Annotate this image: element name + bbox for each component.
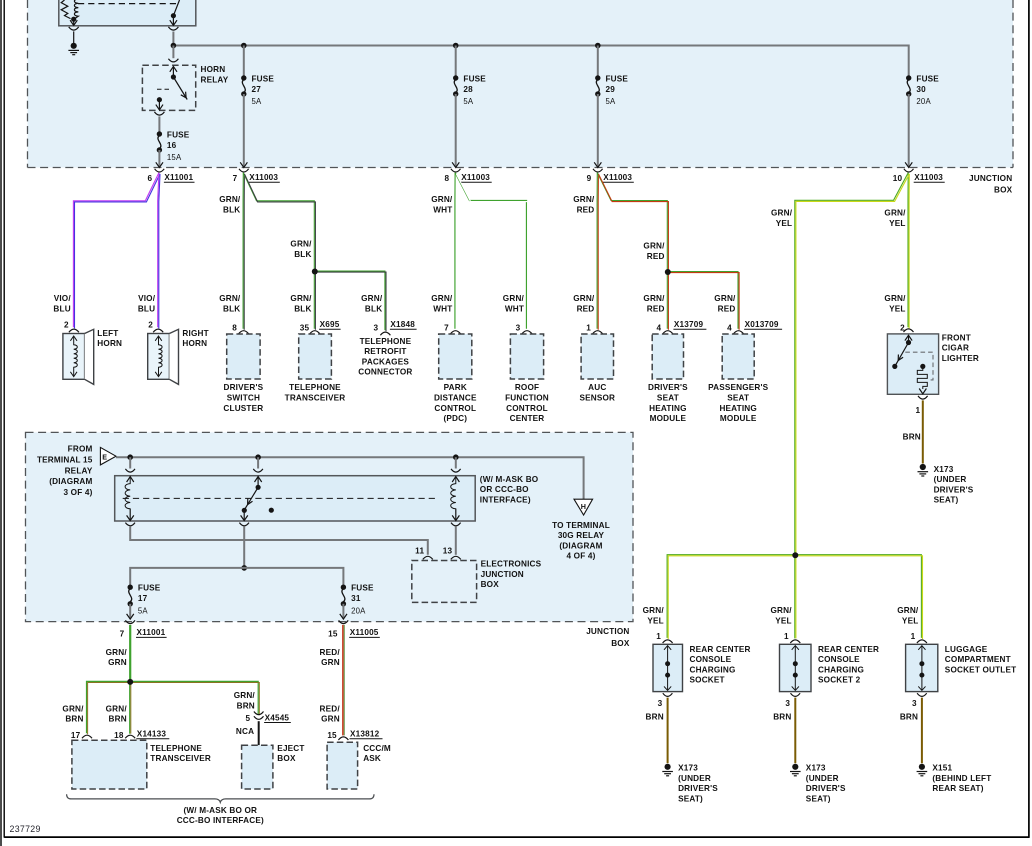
svg-text:BRN: BRN	[237, 701, 255, 710]
roof function control center	[505, 324, 549, 424]
horn relay	[142, 46, 228, 116]
svg-text:H: H	[581, 502, 586, 511]
note: to terminal 30G relay	[552, 521, 610, 561]
svg-text:2: 2	[64, 321, 69, 330]
svg-text:(W/ M-ASK BO OR: (W/ M-ASK BO OR	[183, 806, 257, 815]
note: W/ M-ASK BO or CCC-BO interface	[480, 475, 539, 505]
svg-text:RELAY: RELAY	[201, 75, 229, 84]
rear center console charging socket	[653, 632, 751, 708]
svg-text:X11003: X11003	[603, 173, 632, 182]
electronics junction box	[412, 546, 542, 602]
svg-text:GRN/: GRN/	[643, 242, 665, 251]
svg-text:BRN: BRN	[109, 715, 127, 724]
svg-text:TELEPHONE: TELEPHONE	[150, 744, 202, 753]
svg-text:BRN: BRN	[900, 713, 918, 722]
svg-text:LIGHTER: LIGHTER	[942, 354, 979, 363]
svg-text:X11003: X11003	[461, 173, 490, 182]
svg-text:3: 3	[516, 324, 521, 333]
svg-text:GRN/: GRN/	[62, 704, 84, 713]
wire: bus from relay to fuses 27-30	[171, 32, 909, 79]
wire relay left pin to electronics junction box pin 11	[130, 527, 428, 555]
svg-text:CONSOLE: CONSOLE	[818, 655, 860, 664]
fuse 17	[128, 584, 161, 618]
svg-text:(DIAGRAM: (DIAGRAM	[49, 477, 92, 486]
front cigar lighter	[887, 323, 979, 415]
svg-text:RED/: RED/	[320, 648, 341, 657]
svg-text:BOX: BOX	[277, 754, 296, 763]
svg-text:YEL: YEL	[889, 219, 905, 228]
svg-text:JUNCTION: JUNCTION	[586, 627, 629, 636]
svg-text:5A: 5A	[606, 97, 617, 106]
wire GRN/BRN branches to telephone transceiver and eject box	[62, 679, 259, 734]
telephone transceiver (lower)	[72, 740, 211, 789]
svg-text:VIO/: VIO/	[138, 294, 156, 303]
svg-text:GRN/: GRN/	[884, 294, 906, 303]
svg-text:GRN: GRN	[321, 715, 340, 724]
svg-text:CCC-BO INTERFACE): CCC-BO INTERFACE)	[177, 816, 264, 825]
svg-text:GRN/: GRN/	[219, 294, 241, 303]
svg-text:RELAY: RELAY	[65, 466, 93, 475]
svg-text:GRN/: GRN/	[771, 209, 793, 218]
svg-text:RIGHT: RIGHT	[182, 329, 208, 338]
svg-text:YEL: YEL	[775, 616, 791, 625]
svg-text:YEL: YEL	[889, 304, 905, 313]
svg-text:FUSE: FUSE	[916, 75, 939, 84]
svg-text:REAR CENTER: REAR CENTER	[690, 645, 751, 654]
svg-text:BOX: BOX	[994, 185, 1013, 194]
svg-text:X11001: X11001	[137, 628, 166, 637]
svg-text:FUSE: FUSE	[252, 75, 275, 84]
svg-text:X173: X173	[934, 465, 954, 474]
connector X14133 pins 17 and 18	[71, 730, 169, 740]
svg-text:1: 1	[586, 324, 591, 333]
svg-text:RED: RED	[577, 304, 595, 313]
svg-text:YEL: YEL	[647, 616, 663, 625]
svg-text:RED: RED	[647, 252, 665, 261]
relay (in junction box 2)	[115, 457, 476, 526]
park distance control (PDC)	[434, 324, 477, 424]
left horn	[63, 321, 122, 385]
svg-text:MODULE: MODULE	[650, 414, 687, 423]
connector X4545 pin 5	[236, 712, 291, 736]
fuse 30	[906, 75, 939, 167]
svg-text:SWITCH: SWITCH	[227, 394, 260, 403]
svg-text:FUSE: FUSE	[463, 75, 486, 84]
svg-text:CHARGING: CHARGING	[690, 665, 736, 674]
svg-text:(W/ M-ASK BO: (W/ M-ASK BO	[480, 475, 539, 484]
svg-text:X173: X173	[806, 764, 826, 773]
svg-text:GRN/: GRN/	[897, 606, 919, 615]
svg-text:X151: X151	[932, 764, 952, 773]
svg-text:GRN/: GRN/	[290, 240, 312, 249]
wire BRN from socket 1	[646, 698, 668, 764]
svg-text:DRIVER'S: DRIVER'S	[224, 383, 264, 392]
svg-text:BRN: BRN	[903, 433, 921, 442]
svg-text:GRN/: GRN/	[714, 294, 736, 303]
svg-text:X013709: X013709	[745, 320, 779, 329]
svg-text:GRN/: GRN/	[643, 294, 665, 303]
wire relay switch pin to fuses 17 and 31	[130, 527, 343, 588]
svg-text:5A: 5A	[252, 97, 263, 106]
svg-text:3: 3	[912, 699, 917, 708]
wire RED/GRN from X11005 pin 15	[320, 625, 345, 736]
svg-text:7: 7	[120, 629, 125, 638]
svg-text:(UNDER: (UNDER	[678, 774, 711, 783]
junction box (top)	[28, 0, 1014, 194]
svg-text:TRANSCEIVER: TRANSCEIVER	[285, 394, 346, 403]
svg-text:CONSOLE: CONSOLE	[690, 655, 732, 664]
telephone transceiver (upper)	[285, 320, 346, 403]
ground X173 socket 2	[790, 764, 846, 804]
svg-text:GRN/: GRN/	[573, 294, 595, 303]
svg-text:FUNCTION: FUNCTION	[505, 394, 549, 403]
svg-text:237729: 237729	[10, 824, 41, 834]
svg-text:GRN/: GRN/	[361, 294, 383, 303]
svg-text:REAR SEAT): REAR SEAT)	[932, 784, 983, 793]
svg-text:29: 29	[606, 85, 616, 94]
wire GRN/YEL to front cigar lighter	[884, 173, 909, 329]
svg-text:X14133: X14133	[137, 730, 167, 739]
svg-text:BLK: BLK	[294, 304, 311, 313]
svg-text:RETROFIT: RETROFIT	[364, 347, 406, 356]
svg-text:18: 18	[114, 731, 124, 740]
svg-text:9: 9	[587, 174, 592, 183]
wire BRN from socket 3	[900, 698, 922, 764]
svg-text:SEAT): SEAT)	[934, 496, 959, 505]
svg-text:1: 1	[911, 632, 916, 641]
svg-text:WHT: WHT	[433, 205, 452, 214]
wire GRN/YEL distribution to three sockets	[643, 552, 923, 639]
svg-text:17: 17	[71, 731, 81, 740]
svg-text:SEAT: SEAT	[727, 394, 749, 403]
document number	[10, 824, 41, 834]
svg-text:GRN: GRN	[108, 658, 127, 667]
node H (to terminal 30G relay)	[574, 499, 593, 515]
connector X13812 pin 15	[327, 730, 382, 740]
right horn	[148, 321, 209, 385]
svg-text:SENSOR: SENSOR	[579, 394, 615, 403]
svg-text:MODULE: MODULE	[720, 414, 757, 423]
svg-text:BLK: BLK	[223, 205, 240, 214]
note: from terminal 15 relay	[37, 445, 93, 497]
svg-text:RED: RED	[647, 304, 665, 313]
svg-text:3: 3	[658, 699, 663, 708]
svg-text:BLK: BLK	[294, 250, 311, 259]
svg-text:3: 3	[785, 699, 790, 708]
svg-text:X11005: X11005	[350, 628, 379, 637]
svg-text:SEAT: SEAT	[657, 394, 679, 403]
svg-text:30G RELAY: 30G RELAY	[558, 531, 605, 540]
svg-text:5A: 5A	[463, 97, 474, 106]
svg-text:ASK: ASK	[363, 754, 381, 763]
svg-text:X695: X695	[320, 320, 340, 329]
svg-text:BRN: BRN	[65, 715, 83, 724]
wire GRN/RED to AUC sensor	[573, 173, 598, 330]
svg-text:JUNCTION: JUNCTION	[969, 174, 1012, 183]
svg-text:TO TERMINAL: TO TERMINAL	[552, 521, 610, 530]
svg-text:35: 35	[300, 324, 310, 333]
fuse 31	[341, 584, 374, 618]
svg-text:VIO/: VIO/	[54, 294, 72, 303]
relay (top, partially cut off)	[59, 0, 196, 30]
svg-text:SEAT): SEAT)	[806, 794, 831, 803]
svg-text:31: 31	[351, 594, 361, 603]
svg-text:4 OF 4): 4 OF 4)	[566, 552, 595, 561]
svg-text:EJECT: EJECT	[277, 744, 304, 753]
svg-text:REAR CENTER: REAR CENTER	[818, 645, 879, 654]
connector X11001 pin 6	[147, 162, 194, 183]
connector X11003 pin 9	[587, 162, 634, 183]
svg-text:(UNDER: (UNDER	[934, 475, 967, 484]
svg-text:X1848: X1848	[390, 320, 415, 329]
ground X173 (under driver's seat) at cigar lighter	[918, 464, 974, 505]
svg-text:GRN/: GRN/	[503, 294, 525, 303]
svg-text:GRN/: GRN/	[573, 195, 595, 204]
wire GRN/BLK to driver's switch cluster	[219, 173, 244, 330]
svg-text:3 OF 4): 3 OF 4)	[63, 488, 92, 497]
svg-text:4: 4	[727, 324, 732, 333]
svg-text:X173: X173	[678, 764, 698, 773]
svg-text:GRN/: GRN/	[106, 648, 128, 657]
svg-text:CCC/M: CCC/M	[363, 744, 391, 753]
svg-text:TRANSCEIVER: TRANSCEIVER	[150, 754, 211, 763]
svg-text:YEL: YEL	[776, 219, 792, 228]
svg-text:TERMINAL 15: TERMINAL 15	[37, 456, 93, 465]
svg-text:BLK: BLK	[365, 304, 382, 313]
svg-text:HORN: HORN	[201, 65, 226, 74]
svg-text:FRONT: FRONT	[942, 333, 971, 342]
svg-text:BLK: BLK	[223, 304, 240, 313]
svg-text:4: 4	[656, 324, 661, 333]
svg-text:X11003: X11003	[914, 173, 943, 182]
wire GRN/WHT to park distance control	[431, 173, 456, 330]
svg-text:(UNDER: (UNDER	[806, 774, 839, 783]
svg-text:GRN/: GRN/	[106, 704, 128, 713]
svg-text:30: 30	[916, 85, 926, 94]
svg-text:ROOF: ROOF	[515, 383, 539, 392]
svg-text:X4545: X4545	[265, 713, 290, 722]
svg-text:FUSE: FUSE	[167, 131, 190, 140]
svg-text:15: 15	[328, 629, 338, 638]
wire NCA (black) to eject box	[258, 721, 260, 745]
svg-text:7: 7	[233, 174, 238, 183]
luggage compartment socket outlet	[906, 632, 1017, 708]
svg-text:BRN: BRN	[646, 713, 664, 722]
ground (top left, inside junction box)	[68, 31, 79, 54]
svg-text:GRN/: GRN/	[431, 294, 453, 303]
rear center console charging socket 2	[780, 632, 880, 708]
svg-text:SOCKET OUTLET: SOCKET OUTLET	[945, 665, 1016, 674]
svg-text:13: 13	[443, 546, 453, 555]
svg-text:SEAT): SEAT)	[678, 794, 703, 803]
svg-text:FUSE: FUSE	[138, 584, 161, 593]
svg-text:10: 10	[893, 174, 903, 183]
svg-text:2: 2	[900, 323, 905, 332]
wire VIO/BLU to left horn	[53, 173, 160, 329]
svg-text:COMPARTMENT: COMPARTMENT	[945, 655, 1011, 664]
svg-text:BRN: BRN	[773, 713, 791, 722]
svg-text:X13709: X13709	[674, 320, 704, 329]
wire BRN from socket 2	[773, 698, 795, 764]
telephone retrofit packages connector X1848	[358, 320, 416, 377]
svg-text:3: 3	[373, 324, 378, 333]
svg-text:PACKAGES: PACKAGES	[362, 357, 410, 366]
svg-text:FUSE: FUSE	[606, 75, 629, 84]
wire GRN/YEL long run to sockets	[771, 173, 909, 556]
svg-text:16: 16	[167, 141, 177, 150]
wire BRN from cigar lighter	[903, 400, 923, 463]
eject box	[242, 744, 305, 789]
svg-text:YEL: YEL	[902, 616, 918, 625]
svg-text:JUNCTION: JUNCTION	[481, 570, 524, 579]
svg-text:GRN/: GRN/	[431, 195, 453, 204]
svg-text:27: 27	[252, 85, 262, 94]
svg-text:(DIAGRAM: (DIAGRAM	[559, 541, 602, 550]
svg-text:GRN/: GRN/	[219, 195, 241, 204]
svg-text:BLU: BLU	[138, 304, 155, 313]
svg-text:1: 1	[784, 632, 789, 641]
svg-text:8: 8	[444, 174, 449, 183]
svg-text:BOX: BOX	[611, 639, 630, 648]
svg-text:CIGAR: CIGAR	[942, 344, 969, 353]
fuse 16	[157, 116, 190, 166]
svg-text:LEFT: LEFT	[97, 329, 118, 338]
svg-text:CENTER: CENTER	[510, 414, 545, 423]
svg-text:SOCKET: SOCKET	[690, 676, 725, 685]
CCC/M ASK module	[327, 742, 391, 789]
svg-text:TELEPHONE: TELEPHONE	[289, 383, 341, 392]
svg-text:GRN/: GRN/	[234, 691, 256, 700]
svg-text:CONTROL: CONTROL	[506, 404, 548, 413]
svg-text:7: 7	[444, 324, 449, 333]
svg-text:GRN: GRN	[321, 658, 340, 667]
fuse 28	[453, 46, 486, 167]
svg-text:1: 1	[915, 406, 920, 415]
svg-text:CONTROL: CONTROL	[434, 404, 476, 413]
svg-text:X11001: X11001	[164, 173, 193, 182]
svg-text:20A: 20A	[351, 606, 366, 615]
svg-text:E: E	[102, 453, 107, 462]
wire GRN/GRN from X11001 pin 7	[106, 625, 131, 682]
svg-text:20A: 20A	[916, 97, 931, 106]
svg-text:GRN/: GRN/	[643, 606, 665, 615]
svg-text:HEATING: HEATING	[719, 404, 757, 413]
connector X11003 pin 10	[893, 162, 945, 183]
junction box (middle)	[26, 432, 634, 647]
svg-text:LUGGAGE: LUGGAGE	[945, 645, 988, 654]
svg-text:(BEHIND LEFT: (BEHIND LEFT	[932, 774, 991, 783]
svg-text:GRN/: GRN/	[770, 606, 792, 615]
svg-text:DRIVER'S: DRIVER'S	[678, 784, 718, 793]
svg-text:ELECTRONICS: ELECTRONICS	[481, 560, 542, 569]
svg-text:X13812: X13812	[350, 730, 380, 739]
passenger's seat heating module X013709	[708, 320, 782, 423]
svg-text:DRIVER'S: DRIVER'S	[648, 383, 688, 392]
svg-text:OR CCC-BO: OR CCC-BO	[480, 485, 529, 494]
node E (from terminal 15 relay)	[100, 447, 116, 465]
svg-text:WHT: WHT	[505, 304, 524, 313]
svg-text:TELEPHONE: TELEPHONE	[360, 337, 412, 346]
svg-text:HEATING: HEATING	[649, 404, 687, 413]
svg-text:GRN/: GRN/	[290, 294, 312, 303]
svg-text:X11003: X11003	[249, 173, 278, 182]
wire relay right pin to electronics junction box pin 13	[455, 527, 457, 555]
ground X151 (behind left rear seat)	[917, 764, 992, 794]
svg-text:CONNECTOR: CONNECTOR	[358, 368, 412, 377]
wire GRN/RED branch to seat heating modules	[597, 173, 739, 330]
svg-text:BLU: BLU	[53, 304, 70, 313]
driver's switch cluster	[223, 324, 263, 413]
svg-text:WHT: WHT	[433, 304, 452, 313]
svg-text:5A: 5A	[138, 606, 149, 615]
svg-text:HORN: HORN	[182, 339, 207, 348]
svg-text:HORN: HORN	[97, 339, 122, 348]
svg-text:FUSE: FUSE	[351, 584, 374, 593]
connector X11001 pin 7	[120, 614, 167, 638]
connector X11005 pin 15	[328, 614, 380, 638]
svg-text:DRIVER'S: DRIVER'S	[934, 485, 974, 494]
fuse 29	[595, 46, 628, 167]
svg-text:17: 17	[138, 594, 148, 603]
svg-text:(PDC): (PDC)	[443, 414, 467, 423]
ground X173 socket 1	[662, 764, 718, 804]
svg-text:CLUSTER: CLUSTER	[223, 404, 263, 413]
wire GRN/BLK branch to X695 and X1848	[243, 173, 386, 331]
svg-text:SOCKET 2: SOCKET 2	[818, 676, 861, 685]
svg-text:CHARGING: CHARGING	[818, 665, 864, 674]
svg-text:28: 28	[463, 85, 473, 94]
svg-text:8: 8	[232, 324, 237, 333]
svg-text:RED: RED	[718, 304, 736, 313]
svg-text:15: 15	[327, 731, 337, 740]
svg-text:BOX: BOX	[481, 580, 500, 589]
svg-text:2: 2	[148, 321, 153, 330]
svg-text:RED/: RED/	[320, 704, 341, 713]
wire: bus from E to relay and H	[116, 454, 584, 499]
svg-text:5: 5	[245, 714, 250, 723]
svg-text:6: 6	[147, 174, 152, 183]
AUC sensor	[579, 324, 615, 403]
svg-text:DISTANCE: DISTANCE	[434, 394, 477, 403]
svg-text:PASSENGER'S: PASSENGER'S	[708, 383, 769, 392]
svg-text:INTERFACE): INTERFACE)	[480, 495, 531, 504]
svg-text:15A: 15A	[167, 153, 182, 162]
svg-text:NCA: NCA	[236, 727, 254, 736]
svg-text:RED: RED	[577, 205, 595, 214]
brace: W/ M-ASK BO or CCC-BO interface group	[67, 794, 374, 825]
svg-text:PARK: PARK	[444, 383, 467, 392]
connector X11003 pin 8	[444, 162, 491, 183]
connector X11003 pin 7	[233, 162, 280, 183]
wire VIO/BLU to right horn	[138, 173, 160, 329]
driver's seat heating module X13709	[648, 320, 706, 423]
fuse 27	[241, 46, 274, 167]
svg-text:11: 11	[415, 546, 424, 555]
svg-text:AUC: AUC	[588, 383, 606, 392]
svg-text:FROM: FROM	[68, 445, 93, 454]
svg-text:DRIVER'S: DRIVER'S	[806, 784, 846, 793]
wire GRN/WHT branch to roof function control center	[455, 173, 527, 330]
svg-text:1: 1	[656, 632, 661, 641]
svg-text:GRN/: GRN/	[884, 209, 906, 218]
